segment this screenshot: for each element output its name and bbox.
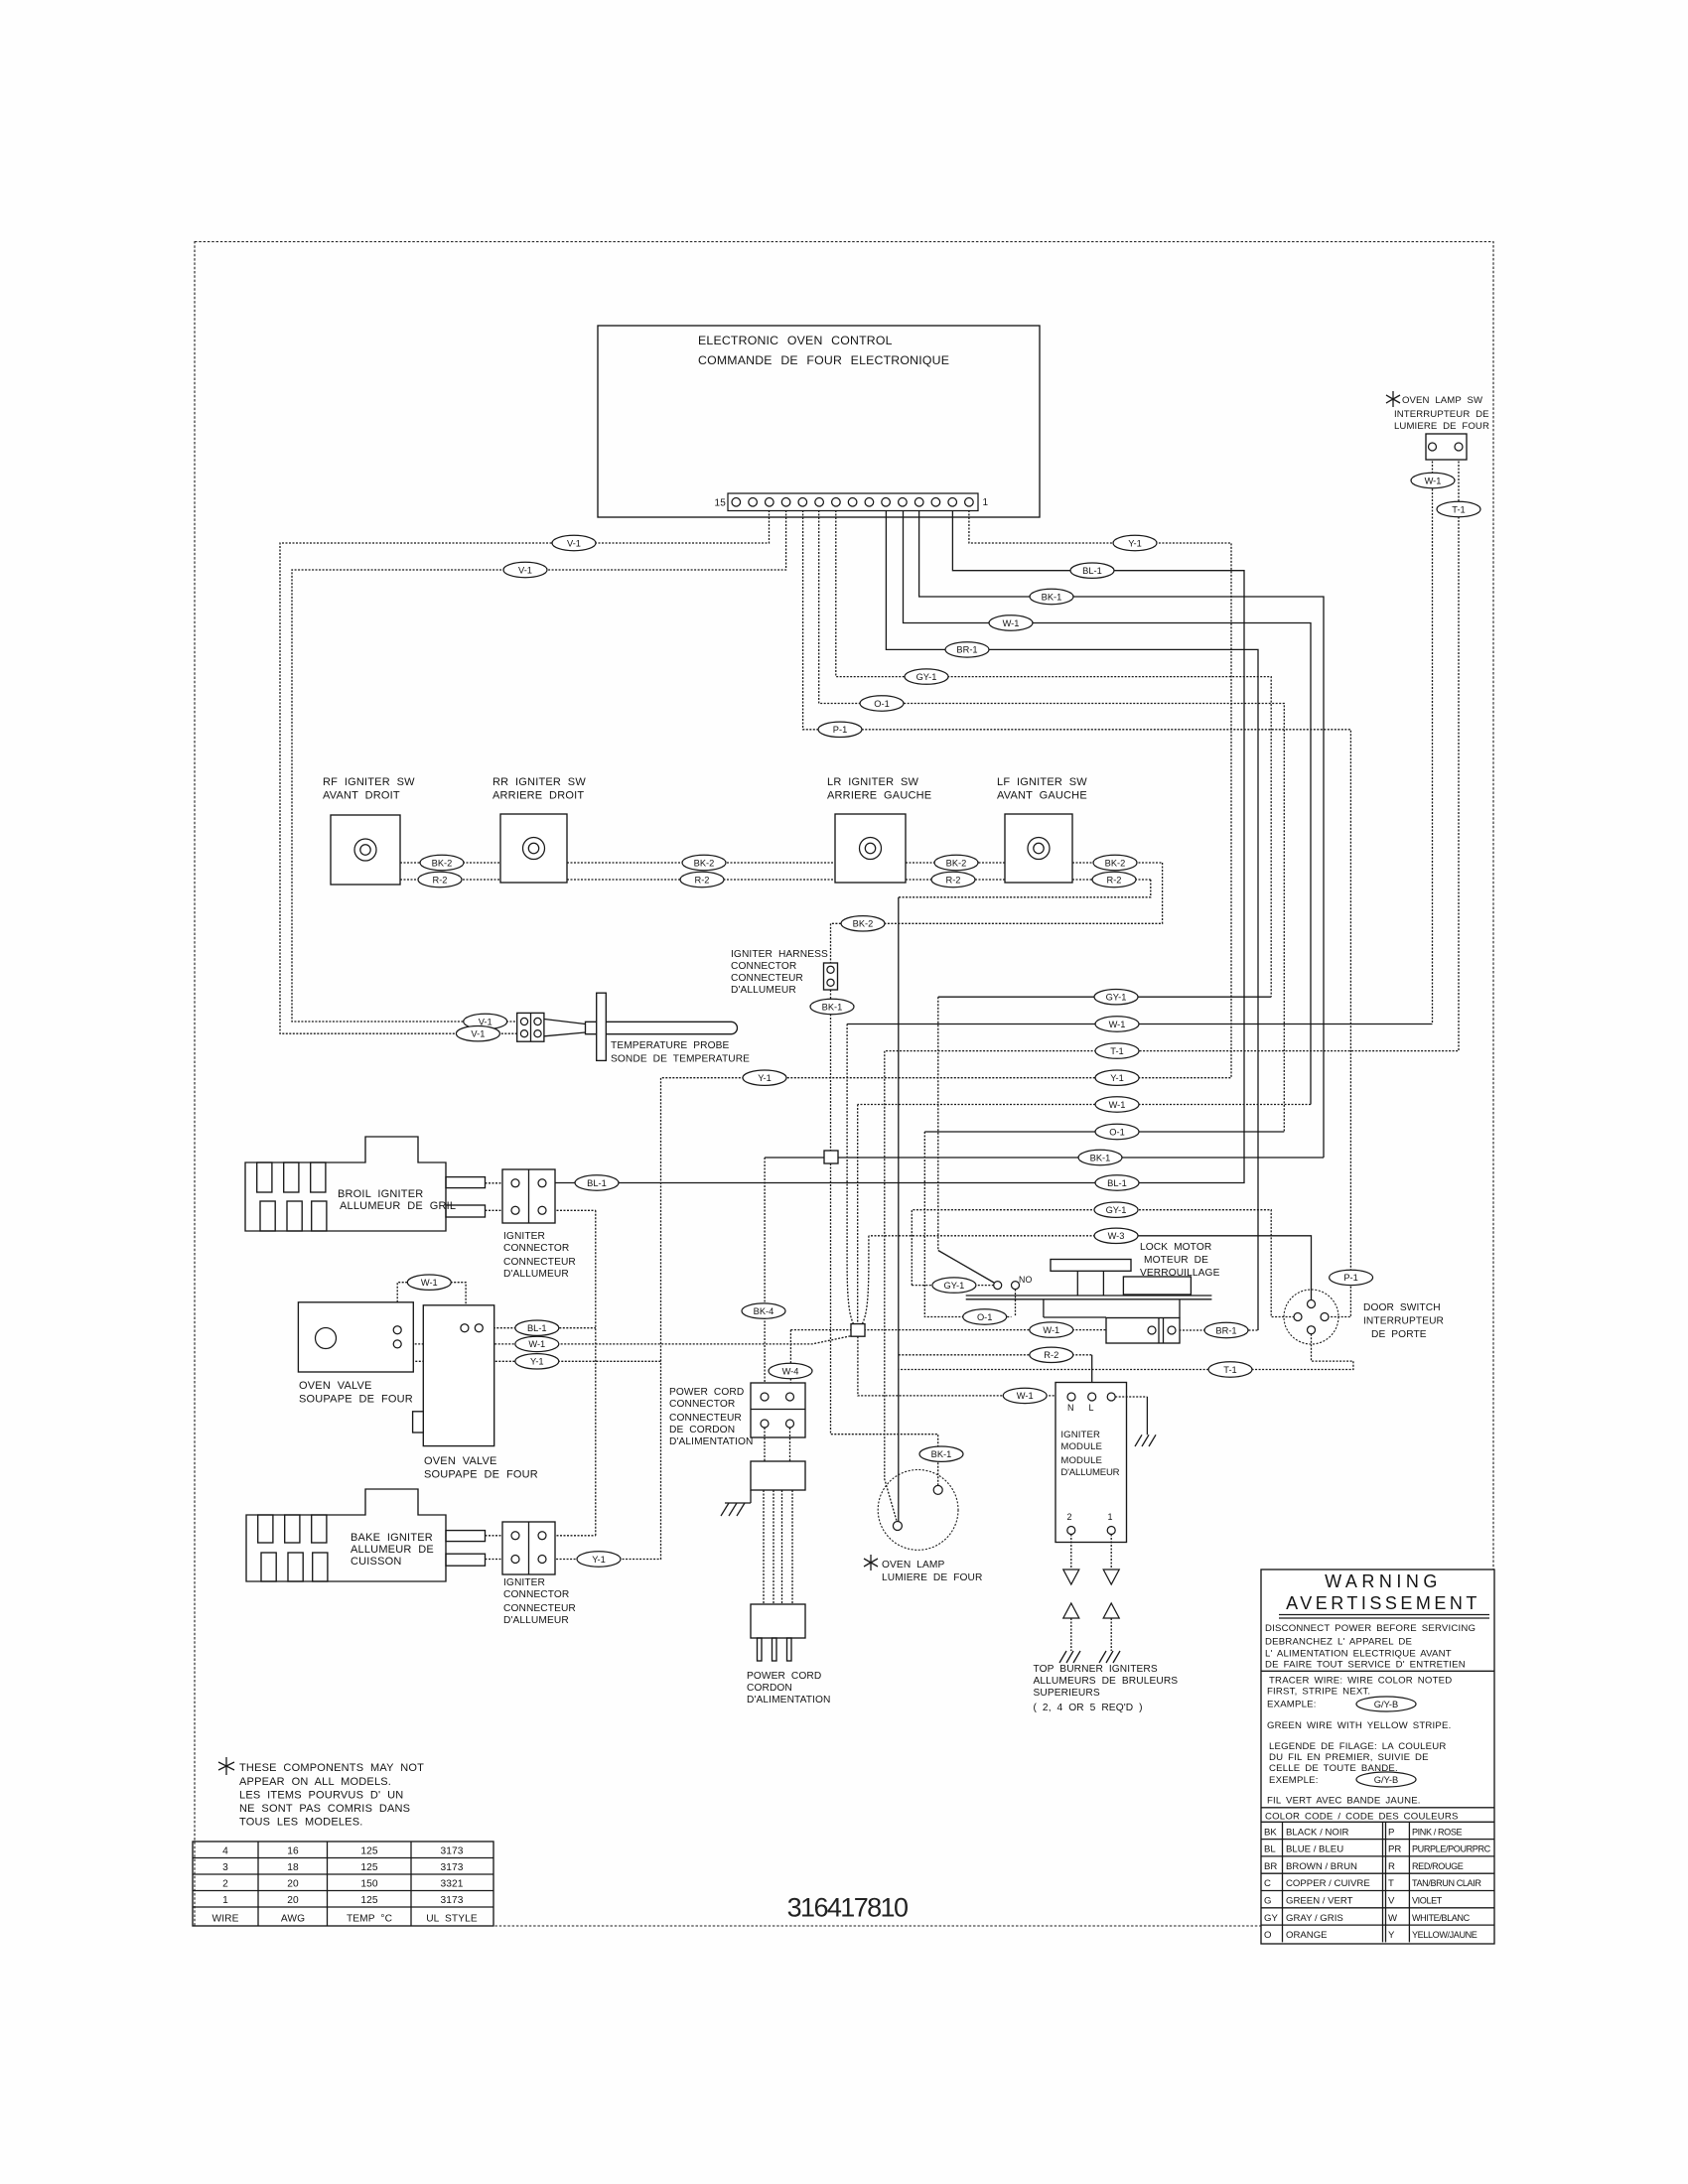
svg-text:CONNECTEUR: CONNECTEUR: [731, 973, 803, 984]
svg-text:DE CORDON: DE CORDON: [669, 1425, 735, 1435]
svg-text:OVEN VALVE: OVEN VALVE: [299, 1380, 372, 1392]
svg-text:CONNECTEUR: CONNECTEUR: [669, 1413, 742, 1424]
svg-text:FIL VERT AVEC BANDE JAUNE.: FIL VERT AVEC BANDE JAUNE.: [1267, 1796, 1421, 1807]
node B splice square: [851, 1324, 865, 1337]
svg-text:T-1: T-1: [1223, 1365, 1236, 1375]
svg-text:W-4: W-4: [782, 1366, 799, 1376]
svg-text:L: L: [1089, 1403, 1094, 1413]
svg-text:BK-1: BK-1: [931, 1449, 952, 1459]
wire label W-4: [769, 1363, 812, 1378]
svg-text:PR: PR: [1388, 1844, 1401, 1855]
svg-text:R-2: R-2: [695, 875, 710, 885]
svg-text:GRAY / GRIS: GRAY / GRIS: [1286, 1913, 1343, 1924]
svg-text:SUPERIEURS: SUPERIEURS: [1034, 1688, 1100, 1699]
svg-text:AWG: AWG: [281, 1914, 305, 1925]
wire label V-1: [503, 562, 547, 577]
wire label BK-2: [1093, 855, 1137, 870]
note: components may not appear: [218, 1757, 424, 1829]
wire label BK-2: [682, 855, 726, 870]
wire label Y-1: [577, 1552, 621, 1567]
svg-text:Y-1: Y-1: [530, 1357, 544, 1367]
oven valve 1: [298, 1302, 413, 1406]
wire O-1 (terminal 10 to lock motor NO contact): [819, 510, 1285, 1132]
svg-text:G/Y-B: G/Y-B: [1374, 1775, 1398, 1785]
svg-text:BK-2: BK-2: [432, 858, 453, 868]
svg-text:LR IGNITER SW: LR IGNITER SW: [827, 776, 919, 788]
svg-text:LES ITEMS POURVUS D' UN: LES ITEMS POURVUS D' UN: [239, 1790, 403, 1802]
LF igniter switch: [997, 776, 1087, 883]
LR igniter switch: [827, 776, 931, 883]
bake igniter: [246, 1489, 511, 1581]
svg-text:DE FAIRE TOUT SERVICE D' E: DE FAIRE TOUT SERVICE D' ENTRETIEN: [1265, 1660, 1466, 1671]
svg-text:APPEAR ON ALL MODELS.: APPEAR ON ALL MODELS.: [239, 1776, 391, 1788]
power cord plug: [747, 1604, 830, 1706]
svg-text:20: 20: [287, 1895, 299, 1906]
svg-text:W-1: W-1: [1109, 1020, 1126, 1029]
svg-text:GREEN / VERT: GREEN / VERT: [1286, 1896, 1353, 1907]
wire label BK-2: [934, 855, 978, 870]
svg-text:T-1: T-1: [1110, 1046, 1123, 1056]
svg-text:NO: NO: [1019, 1275, 1032, 1285]
wire W-1 (oven lamp switch to splice node B): [1432, 451, 1434, 1024]
svg-text:UL STYLE: UL STYLE: [426, 1914, 478, 1925]
wire label BK-1: [1078, 1150, 1122, 1164]
wire label W-1: [1095, 1017, 1139, 1031]
svg-text:N: N: [1067, 1403, 1074, 1413]
svg-text:MODULE: MODULE: [1060, 1441, 1102, 1452]
wire label W-1: [515, 1336, 559, 1351]
svg-text:MODULE: MODULE: [1060, 1455, 1102, 1466]
tracer wire example labels: [1356, 1697, 1416, 1787]
wire Y-1 (oven valve to Y-1 riser): [397, 1348, 660, 1361]
svg-text:15: 15: [714, 498, 726, 509]
wire label Y-1: [1095, 1070, 1139, 1085]
svg-text:WARNING: WARNING: [1325, 1571, 1442, 1591]
svg-text:DE PORTE: DE PORTE: [1371, 1329, 1427, 1340]
RF igniter switch: [323, 776, 415, 885]
RR igniter switch: [492, 776, 586, 883]
svg-text:GY-1: GY-1: [943, 1281, 964, 1291]
wire label Y-1: [515, 1354, 559, 1369]
wire label O-1: [860, 696, 904, 711]
svg-text:150: 150: [360, 1879, 378, 1890]
svg-text:W: W: [1388, 1913, 1398, 1924]
svg-text:GY-1: GY-1: [916, 672, 937, 682]
wire label Y-1: [743, 1070, 786, 1085]
svg-text:BR-1: BR-1: [956, 645, 977, 655]
svg-text:W-3: W-3: [1108, 1231, 1125, 1241]
svg-text:CUISSON: CUISSON: [351, 1556, 402, 1568]
wire label O-1: [1095, 1124, 1139, 1139]
wire label W-1: [407, 1275, 451, 1290]
door switch: [1284, 1290, 1444, 1344]
wire links to strain relief: [764, 1428, 766, 1461]
svg-text:RR IGNITER SW: RR IGNITER SW: [492, 776, 586, 788]
wire T-1 (oven lamp switch to oven lamp): [885, 451, 1459, 1521]
svg-text:316417810: 316417810: [787, 1893, 908, 1923]
svg-text:TEMP °C: TEMP °C: [347, 1914, 392, 1925]
oven lamp: [864, 1470, 982, 1584]
svg-text:DEBRANCHEZ L' APPAREL DE: DEBRANCHEZ L' APPAREL DE: [1265, 1637, 1412, 1648]
svg-text:BL: BL: [1264, 1844, 1276, 1855]
svg-text:BLACK / NOIR: BLACK / NOIR: [1286, 1827, 1349, 1838]
wire label O-1: [963, 1309, 1007, 1324]
svg-text:GY-1: GY-1: [1106, 1205, 1127, 1215]
wire label BL-1: [1070, 563, 1114, 578]
svg-text:3173: 3173: [440, 1862, 463, 1873]
lock motor NO switch contacts: [994, 1275, 1033, 1290]
wire label BK-2: [841, 916, 885, 931]
svg-text:BK-2: BK-2: [694, 858, 715, 868]
wire label BK-4: [742, 1303, 785, 1318]
svg-text:ARRIERE GAUCHE: ARRIERE GAUCHE: [827, 790, 931, 802]
svg-text:OVEN LAMP SW: OVEN LAMP SW: [1402, 395, 1483, 406]
svg-text:ORANGE: ORANGE: [1286, 1930, 1328, 1941]
wire label T-1: [1208, 1362, 1252, 1377]
svg-text:FIRST, STRIPE NEXT.: FIRST, STRIPE NEXT.: [1267, 1687, 1370, 1698]
wire label GY-1: [1094, 1202, 1138, 1217]
svg-text:BLUE / BLEU: BLUE / BLEU: [1286, 1844, 1343, 1855]
svg-text:BK-1: BK-1: [1090, 1153, 1111, 1162]
wire label R-2: [418, 872, 462, 887]
oven valve 2: [413, 1305, 538, 1481]
svg-text:4: 4: [222, 1846, 228, 1857]
bake igniter connector: [502, 1522, 576, 1626]
wire BK-4 (junction A down to power cord connector): [764, 1158, 766, 1393]
ground (power cord): [721, 1490, 751, 1516]
broil igniter: [245, 1137, 511, 1231]
svg-text:RF IGNITER SW: RF IGNITER SW: [323, 776, 415, 788]
svg-text:BK-1: BK-1: [1042, 592, 1062, 602]
svg-text:V-1: V-1: [471, 1029, 485, 1039]
oven lamp switch: [1386, 391, 1489, 460]
svg-text:GREEN WIRE WITH YELLOW STRIPE.: GREEN WIRE WITH YELLOW STRIPE.: [1267, 1720, 1451, 1731]
svg-text:BK-2: BK-2: [1105, 858, 1126, 868]
lock motor assembly: [966, 1242, 1220, 1318]
svg-text:BAKE IGNITER: BAKE IGNITER: [351, 1532, 433, 1544]
igniter module ground: [1115, 1397, 1156, 1446]
wire label GY-1: [905, 669, 948, 684]
wire label BK-1: [1030, 589, 1073, 604]
svg-text:BR: BR: [1264, 1861, 1277, 1872]
wire GY-1 (lock motor contact stub): [912, 1285, 993, 1287]
svg-text:W-1: W-1: [1425, 476, 1442, 485]
wire BL-1 (terminal 2 down to broil igniter connector): [546, 510, 1244, 1183]
svg-text:SOUPAPE DE FOUR: SOUPAPE DE FOUR: [299, 1394, 413, 1406]
svg-text:AVANT GAUCHE: AVANT GAUCHE: [997, 790, 1087, 802]
svg-text:P-1: P-1: [1343, 1273, 1357, 1283]
svg-text:3173: 3173: [440, 1895, 463, 1906]
svg-text:LOCK MOTOR: LOCK MOTOR: [1140, 1242, 1211, 1253]
svg-text:125: 125: [360, 1846, 378, 1857]
svg-text:OVEN LAMP: OVEN LAMP: [882, 1560, 944, 1570]
svg-text:LEGENDE DE FILAGE: LA COULEU: LEGENDE DE FILAGE: LA COULEUR: [1269, 1741, 1447, 1752]
svg-text:G: G: [1264, 1896, 1271, 1907]
svg-text:L' ALIMENTATION ELECTRIQUE A: L' ALIMENTATION ELECTRIQUE AVANT: [1265, 1649, 1452, 1660]
svg-text:16: 16: [287, 1846, 299, 1857]
temperature probe connector: [517, 1013, 544, 1041]
svg-text:TAN/BRUN CLAIR: TAN/BRUN CLAIR: [1412, 1878, 1481, 1888]
wire GY-1 (lock motor to door switch): [912, 1210, 1294, 1317]
svg-text:DOOR SWITCH: DOOR SWITCH: [1363, 1302, 1441, 1313]
svg-text:( 2, 4 OR 5 REQ'D ): ( 2, 4 OR 5 REQ'D ): [1034, 1703, 1143, 1713]
svg-text:BL-1: BL-1: [527, 1323, 547, 1333]
svg-text:2: 2: [222, 1879, 228, 1890]
svg-text:IGNITER: IGNITER: [503, 1231, 545, 1242]
svg-text:VIOLET: VIOLET: [1412, 1896, 1443, 1906]
svg-text:LUMIERE DE FOUR: LUMIERE DE FOUR: [1394, 421, 1489, 432]
svg-text:CONNECTOR: CONNECTOR: [669, 1399, 735, 1410]
wire V-1 (terminal 13 to temperature probe): [280, 510, 770, 1033]
wire bake connector upper pin: [546, 1535, 596, 1537]
svg-text:AVANT DROIT: AVANT DROIT: [323, 790, 400, 802]
svg-text:SOUPAPE DE FOUR: SOUPAPE DE FOUR: [424, 1469, 538, 1481]
svg-text:R-2: R-2: [433, 875, 448, 885]
EOC terminal strip pins 15..1: [714, 493, 988, 511]
lock motor solenoid: [1106, 1318, 1180, 1344]
wire label BK-1: [810, 999, 854, 1014]
igniter harness connector: [731, 949, 838, 996]
wire BK-1 horizontal bus through junction A: [765, 1157, 1324, 1159]
svg-text:P-1: P-1: [833, 725, 847, 735]
svg-text:1: 1: [1108, 1512, 1113, 1522]
svg-text:CORDON: CORDON: [747, 1683, 792, 1694]
svg-text:GY: GY: [1264, 1913, 1278, 1924]
svg-text:G/Y-B: G/Y-B: [1374, 1700, 1398, 1709]
svg-text:BL-1: BL-1: [1082, 566, 1102, 576]
wire label V-1: [464, 1014, 507, 1028]
svg-text:125: 125: [360, 1862, 378, 1873]
wire label BL-1: [515, 1320, 559, 1335]
svg-text:TEMPERATURE PROBE: TEMPERATURE PROBE: [611, 1040, 730, 1051]
svg-text:V-1: V-1: [567, 538, 581, 548]
svg-text:DU FIL EN PREMIER, SUIVIE: DU FIL EN PREMIER, SUIVIE DE: [1269, 1752, 1429, 1763]
wire label BK-1: [919, 1446, 963, 1461]
svg-text:TOP BURNER IGNITERS: TOP BURNER IGNITERS: [1034, 1664, 1158, 1675]
wire label Y-1: [1113, 535, 1157, 550]
wire label P-1: [818, 722, 862, 737]
wire label T-1: [1437, 501, 1480, 516]
svg-text:PURPLE/POURPRC: PURPLE/POURPRC: [1412, 1844, 1491, 1854]
wire label W-1: [1030, 1322, 1073, 1337]
svg-text:BROWN / BRUN: BROWN / BRUN: [1286, 1861, 1357, 1872]
temperature probe body: [544, 993, 750, 1064]
svg-text:ELECTRONIC OVEN CONTROL: ELECTRONIC OVEN CONTROL: [698, 334, 893, 347]
svg-text:D'ALLUMEUR: D'ALLUMEUR: [1060, 1467, 1119, 1478]
wire W-1 (terminal 5 to splice node B): [904, 510, 1312, 1105]
svg-text:POWER CORD: POWER CORD: [747, 1671, 821, 1682]
wire BR-1 (terminal 6 to lock motor solenoid): [886, 510, 1258, 1330]
svg-text:NE SONT PAS COMRIS DANS: NE SONT PAS COMRIS DANS: [239, 1803, 410, 1815]
broil igniter connector: [502, 1169, 576, 1280]
svg-text:WHITE/BLANC: WHITE/BLANC: [1412, 1913, 1471, 1923]
wire W-3 (door switch top pin to splice node B): [1116, 1236, 1312, 1300]
svg-text:Y-1: Y-1: [592, 1555, 606, 1565]
svg-text:INTERRUPTEUR DE: INTERRUPTEUR DE: [1394, 409, 1489, 420]
svg-text:PINK / ROSE: PINK / ROSE: [1412, 1827, 1463, 1837]
svg-text:ALLUMEUR DE: ALLUMEUR DE: [351, 1544, 434, 1556]
node A junction square: [824, 1151, 838, 1163]
wire label V-1: [456, 1026, 499, 1041]
svg-text:3321: 3321: [440, 1879, 463, 1890]
svg-text:IGNITER: IGNITER: [1060, 1430, 1100, 1440]
svg-text:V: V: [1388, 1896, 1395, 1907]
svg-text:O-1: O-1: [977, 1312, 993, 1322]
svg-text:D'ALLUMEUR: D'ALLUMEUR: [503, 1615, 569, 1626]
wire V-1 (terminal 12 to temperature probe): [292, 510, 786, 1022]
svg-text:EXEMPLE:: EXEMPLE:: [1269, 1775, 1319, 1786]
svg-text:O-1: O-1: [1109, 1127, 1125, 1137]
warning box: [1261, 1570, 1494, 1944]
svg-text:R-2: R-2: [1107, 875, 1122, 885]
svg-text:CONNECTEUR: CONNECTEUR: [503, 1603, 576, 1614]
svg-text:R-2: R-2: [946, 875, 961, 885]
svg-text:CONNECTOR: CONNECTOR: [731, 961, 796, 972]
svg-text:BROIL IGNITER: BROIL IGNITER: [338, 1188, 423, 1200]
wire W-1 (power cord to lock motor solenoid through node B): [790, 1329, 1148, 1331]
svg-text:BR-1: BR-1: [1215, 1325, 1236, 1335]
svg-text:Y: Y: [1388, 1930, 1395, 1941]
svg-text:COMMANDE DE FOUR ELECTRONIQUE: COMMANDE DE FOUR ELECTRONIQUE: [698, 353, 949, 367]
svg-text:CONNECTEUR: CONNECTEUR: [503, 1257, 576, 1268]
wire W-4 (to power cord connector): [789, 1330, 791, 1393]
svg-text:D'ALIMENTATION: D'ALIMENTATION: [747, 1695, 830, 1706]
border frame: [195, 242, 1493, 1927]
svg-text:YELLOW/JAUNE: YELLOW/JAUNE: [1412, 1930, 1477, 1940]
svg-text:ALLUMEUR DE GRIL: ALLUMEUR DE GRIL: [340, 1200, 456, 1212]
svg-text:D'ALLUMEUR: D'ALLUMEUR: [503, 1269, 569, 1280]
wire BK-1 (terminal 4 to junction node A): [919, 510, 1324, 1158]
svg-text:TRACER WIRE: WIRE COLOR NOTE: TRACER WIRE: WIRE COLOR NOTED: [1269, 1676, 1452, 1687]
svg-text:2: 2: [1067, 1512, 1072, 1522]
svg-text:BK-2: BK-2: [946, 858, 967, 868]
svg-text:INTERRUPTEUR: INTERRUPTEUR: [1363, 1316, 1444, 1327]
wire P-1 (terminal 11 to door switch): [803, 510, 1351, 1317]
svg-text:BK-4: BK-4: [754, 1306, 774, 1316]
wire riser broil/bake connector: [595, 1210, 597, 1536]
wire broil connector lower pin: [546, 1209, 596, 1211]
svg-text:W-1: W-1: [1043, 1325, 1059, 1335]
wire label BR-1: [945, 642, 989, 657]
wire label BK-2: [420, 855, 464, 870]
power cord strain relief: [751, 1461, 805, 1490]
svg-text:W-1: W-1: [1003, 618, 1020, 628]
top burner igniter arrows: [1034, 1535, 1179, 1714]
svg-text:D'ALIMENTATION: D'ALIMENTATION: [669, 1436, 753, 1447]
svg-text:Y-1: Y-1: [1110, 1073, 1124, 1083]
svg-text:IGNITER: IGNITER: [503, 1577, 545, 1588]
wire label BR-1: [1204, 1322, 1248, 1337]
svg-text:C: C: [1264, 1878, 1271, 1889]
svg-text:EXAMPLE:: EXAMPLE:: [1267, 1700, 1317, 1710]
svg-text:BL-1: BL-1: [587, 1178, 607, 1188]
svg-text:P: P: [1388, 1827, 1394, 1838]
svg-text:TOUS LES MODELES.: TOUS LES MODELES.: [239, 1817, 363, 1829]
svg-text:SONDE DE TEMPERATURE: SONDE DE TEMPERATURE: [611, 1054, 750, 1065]
svg-text:3173: 3173: [440, 1846, 463, 1857]
wire label R-2: [931, 872, 975, 887]
svg-text:Y-1: Y-1: [758, 1073, 772, 1083]
svg-text:D'ALLUMEUR: D'ALLUMEUR: [731, 985, 796, 996]
wire label R-2: [1030, 1347, 1073, 1362]
svg-text:V-1: V-1: [479, 1017, 492, 1026]
svg-text:POWER CORD: POWER CORD: [669, 1387, 744, 1398]
wire label R-2: [1092, 872, 1136, 887]
wire label W-1: [1411, 473, 1455, 487]
svg-text:W-1: W-1: [1017, 1391, 1034, 1401]
svg-text:R-2: R-2: [1044, 1350, 1058, 1360]
wire R-2 (to igniter module L): [899, 1354, 1092, 1356]
svg-text:O: O: [1264, 1930, 1271, 1941]
wire R-2 / oven lamp feed (vertical): [898, 897, 900, 1522]
wire W-1 (node B to igniter module N): [858, 1336, 1067, 1396]
svg-text:BK: BK: [1264, 1827, 1277, 1838]
power cord connector: [669, 1383, 805, 1447]
svg-text:DISCONNECT POWER BEFORE SERVIC: DISCONNECT POWER BEFORE SERVICING: [1265, 1623, 1476, 1634]
color code table: [1261, 1822, 1494, 1942]
svg-text:18: 18: [287, 1862, 299, 1873]
svg-text:RED/ROUGE: RED/ROUGE: [1412, 1861, 1464, 1871]
wire label T-1: [1095, 1043, 1139, 1058]
svg-text:CONNECTOR: CONNECTOR: [503, 1589, 569, 1600]
power cord cable: [764, 1490, 792, 1604]
svg-text:1: 1: [983, 497, 989, 508]
wire label W-1: [989, 615, 1033, 630]
wire T-1 (door switch bottom pin): [899, 1334, 1353, 1370]
svg-text:BK-1: BK-1: [822, 1002, 843, 1012]
wire BK-2 bus (igniter switches): [400, 862, 500, 864]
svg-text:T: T: [1388, 1878, 1394, 1889]
svg-text:ALLUMEURS DE BRULEURS: ALLUMEURS DE BRULEURS: [1034, 1676, 1179, 1687]
wire label R-2: [680, 872, 724, 887]
svg-text:AVERTISSEMENT: AVERTISSEMENT: [1286, 1593, 1480, 1613]
svg-text:O-1: O-1: [874, 699, 890, 709]
svg-text:1: 1: [222, 1895, 228, 1906]
wire label W-1: [1003, 1388, 1047, 1403]
wire label BL-1: [1095, 1175, 1139, 1190]
svg-text:OVEN VALVE: OVEN VALVE: [424, 1455, 497, 1467]
wire label W-1: [1095, 1097, 1139, 1112]
electronic oven control box U1: [598, 326, 1040, 517]
svg-text:THESE COMPONENTS MAY NOT: THESE COMPONENTS MAY NOT: [239, 1762, 424, 1774]
svg-text:LUMIERE DE FOUR: LUMIERE DE FOUR: [882, 1572, 982, 1583]
wire gauge table: [193, 1842, 493, 1926]
svg-text:R: R: [1388, 1861, 1395, 1872]
svg-text:IGNITER HARNESS: IGNITER HARNESS: [731, 949, 828, 960]
svg-text:CONNECTOR: CONNECTOR: [503, 1243, 569, 1254]
wire Y-1 (terminal 1 down right side to bake igniter connector): [546, 510, 1231, 1560]
wire GY-1 (terminal 9 to lock motor switch): [836, 510, 1271, 997]
svg-text:BK-2: BK-2: [853, 919, 874, 929]
svg-text:COLOR CODE / CODE DES COULEUR: COLOR CODE / CODE DES COULEURS: [1265, 1812, 1459, 1823]
wire label BL-1: [575, 1175, 619, 1190]
svg-text:WIRE: WIRE: [212, 1914, 239, 1925]
svg-text:ARRIERE DROIT: ARRIERE DROIT: [492, 790, 584, 802]
wire BK-1 (junction A to oven lamp): [831, 1163, 938, 1486]
igniter module: [1055, 1383, 1127, 1543]
svg-text:MOTEUR DE: MOTEUR DE: [1144, 1255, 1208, 1266]
svg-text:COPPER / CUIVRE: COPPER / CUIVRE: [1286, 1878, 1370, 1889]
wire label GY-1: [932, 1278, 976, 1293]
wire label GY-1: [1094, 990, 1138, 1005]
wire label W-3: [1094, 1228, 1138, 1243]
wire BK-1 (igniter harness connector to junction A): [830, 990, 832, 1151]
svg-text:GY-1: GY-1: [1106, 993, 1127, 1003]
svg-text:125: 125: [360, 1895, 378, 1906]
svg-text:20: 20: [287, 1879, 299, 1890]
svg-text:W-1: W-1: [1109, 1100, 1126, 1110]
wire label V-1: [552, 535, 596, 550]
